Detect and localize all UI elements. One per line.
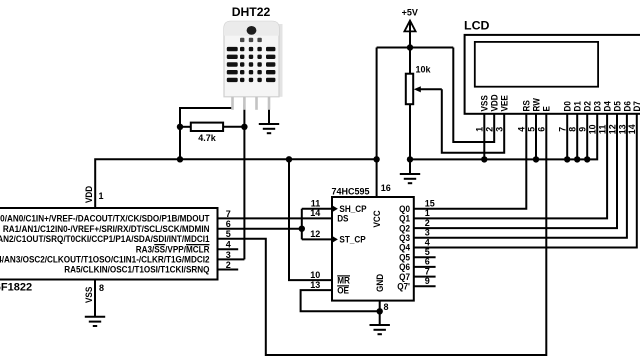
- svg-text:RW: RW: [531, 98, 541, 112]
- svg-text:15: 15: [425, 199, 435, 209]
- svg-text:8: 8: [99, 283, 104, 293]
- svg-text:MR: MR: [337, 275, 350, 285]
- svg-text:10: 10: [588, 124, 598, 134]
- wire PIC pin 4 stub: [218, 248, 239, 250]
- DHT22 eye circle: [247, 26, 257, 35]
- svg-text:VCC: VCC: [372, 210, 382, 228]
- svg-text:4: 4: [517, 127, 527, 132]
- wire pot ground stub: [409, 159, 411, 174]
- svg-text:16: 16: [381, 183, 391, 193]
- svg-text:6: 6: [537, 127, 547, 132]
- svg-text:13: 13: [310, 280, 320, 290]
- svg-text:4.7k: 4.7k: [198, 133, 217, 143]
- wire LCD D0 drop: [566, 114, 568, 160]
- svg-text:Q3: Q3: [399, 233, 410, 243]
- wire +5V symbol stem and pot top lead: [409, 22, 411, 74]
- ground PIC VSS: [85, 317, 105, 326]
- overbar OE: [337, 285, 349, 287]
- svg-text:RA1/AN1/C12IN0-/VREF+/SRI/RX/D: RA1/AN1/C12IN0-/VREF+/SRI/RX/DT/SCL/SCK/…: [3, 224, 210, 234]
- wire ST_CP pin 12 wire: [302, 238, 332, 240]
- svg-text:Q2: Q2: [399, 223, 410, 233]
- svg-text:6: 6: [226, 219, 231, 229]
- svg-text:1: 1: [475, 127, 485, 132]
- svg-text:VDD: VDD: [84, 185, 94, 203]
- wire resistor 4.7k right lead: [223, 126, 244, 128]
- wire Q7' stub: [414, 285, 436, 287]
- pot wiper arrowhead: [414, 86, 421, 92]
- svg-text:7: 7: [226, 209, 231, 219]
- junction data line / resistor right: [241, 124, 247, 130]
- svg-text:5: 5: [226, 229, 231, 239]
- junction ground rail / LCD VSS: [481, 156, 487, 162]
- svg-text:9: 9: [578, 127, 588, 132]
- svg-text:RS: RS: [522, 100, 532, 111]
- svg-text:PIC16F1822: PIC16F1822: [0, 281, 32, 293]
- svg-text:Q4: Q4: [399, 243, 410, 253]
- svg-text:9: 9: [425, 276, 430, 286]
- wire MR pull-up to VDD rail: [289, 159, 332, 280]
- wire Q5 stub: [414, 256, 436, 258]
- svg-text:GND: GND: [375, 273, 385, 292]
- wire Q3 to LCD D6: [414, 114, 627, 238]
- svg-text:D1: D1: [573, 101, 583, 111]
- svg-text:E: E: [542, 106, 552, 111]
- wire LCD D2 drop: [586, 114, 588, 160]
- junction clock bracket / PIC pin 6: [299, 226, 305, 232]
- svg-text:ST_CP: ST_CP: [339, 235, 365, 245]
- wire LCD D1 drop: [576, 114, 578, 160]
- svg-text:12: 12: [310, 229, 320, 239]
- junction VDD rail / VCC feed: [373, 156, 379, 162]
- svg-text:11: 11: [311, 199, 321, 209]
- ground DHT22 pin 4: [259, 124, 279, 133]
- svg-text:D7: D7: [632, 101, 640, 111]
- IC 74HC595 box: [332, 197, 414, 301]
- ground 74HC595 GND: [370, 325, 390, 334]
- svg-text:RA2/AN2/C1OUT/SRQ/T0CKI/CCP1/P: RA2/AN2/C1OUT/SRQ/T0CKI/CCP1/P1A/SDA/SDI…: [0, 234, 210, 244]
- svg-text:Q7': Q7': [397, 282, 410, 292]
- overbar MR: [337, 275, 350, 277]
- wire pot wiper to LCD VEE: [442, 89, 504, 153]
- junction ground rail / LCD RW: [533, 156, 539, 162]
- svg-text:11: 11: [598, 125, 608, 134]
- DHT22 pins: [231, 97, 270, 110]
- svg-text:14: 14: [310, 208, 320, 218]
- wire Q0 to LCD RS: [414, 114, 527, 209]
- svg-text:+5V: +5V: [402, 8, 418, 18]
- svg-text:10: 10: [310, 270, 320, 280]
- wire Q6 stub: [414, 266, 436, 268]
- wire Q1 to LCD D4: [414, 114, 607, 219]
- svg-text:Q0: Q0: [399, 204, 410, 214]
- wire PIC pin 6 wire: [218, 228, 302, 230]
- svg-text:2: 2: [425, 218, 430, 228]
- svg-text:D3: D3: [593, 101, 603, 111]
- junction VDD rail / MR pull-up: [286, 156, 292, 162]
- junction ground rail / LCD D2: [584, 156, 590, 162]
- svg-text:2: 2: [485, 127, 495, 132]
- svg-text:3: 3: [425, 228, 430, 238]
- svg-text:Q7: Q7: [399, 272, 410, 282]
- ground pot bottom: [400, 174, 420, 183]
- power +5V symbol: [404, 21, 415, 32]
- DHT22 vent slots: [227, 38, 276, 82]
- overbar SS: [154, 244, 165, 246]
- svg-text:8: 8: [568, 127, 578, 132]
- svg-text:Q6: Q6: [399, 262, 410, 272]
- svg-text:13: 13: [617, 124, 627, 134]
- svg-text:D4: D4: [603, 101, 613, 111]
- wire DHT22 VDD branch: [180, 105, 233, 160]
- svg-text:1: 1: [425, 208, 430, 218]
- junction +5V / pot top: [407, 44, 413, 50]
- IC PIC16F1822 box: [0, 208, 218, 280]
- wire +5V feed down to 74HC595 VCC pin 16: [376, 48, 378, 198]
- wire DHT22 data line down to PIC pin 3 row: [243, 105, 245, 260]
- svg-text:RA3/SS/VPP/MCLR: RA3/SS/VPP/MCLR: [136, 244, 210, 254]
- svg-text:VSS: VSS: [480, 95, 490, 111]
- wire DHT22 ground lead: [268, 105, 270, 125]
- wire 74HC595 GND pin 8 lead: [379, 301, 381, 325]
- potentiometer 10k body: [406, 74, 413, 105]
- svg-text:VEE: VEE: [500, 95, 510, 111]
- junction pot bottom / ground rail: [407, 156, 413, 162]
- wire LCD RW drop to ground rail: [535, 114, 537, 160]
- clock triangle ST_CP: [332, 236, 338, 243]
- wire Q2 to LCD D5: [414, 114, 617, 228]
- svg-text:10k: 10k: [416, 64, 432, 74]
- wire LCD ground rail to D3: [410, 114, 597, 160]
- LCD screen rectangle: [475, 42, 598, 87]
- wire PIC pin 5 to LCD E: [218, 114, 547, 355]
- svg-text:RA0/AN0/C1IN+/VREF-/DACOUT/TX/: RA0/AN0/C1IN+/VREF-/DACOUT/TX/CK/SDO/P1B…: [0, 214, 210, 224]
- svg-text:DHT22: DHT22: [232, 5, 271, 19]
- svg-text:VDD: VDD: [490, 94, 500, 112]
- wire PIC pin 2 stub: [218, 269, 239, 271]
- wire VDD rail from PIC pin 1 across top: [95, 159, 376, 208]
- svg-text:3: 3: [226, 250, 231, 260]
- svg-text:8: 8: [384, 302, 389, 312]
- svg-text:D0: D0: [563, 101, 573, 111]
- LCD module box: [465, 35, 640, 114]
- wire OE to GND junction: [301, 290, 380, 311]
- junction ground rail / LCD D1: [574, 156, 580, 162]
- svg-text:2: 2: [226, 260, 231, 270]
- clock triangle SH_CP: [332, 205, 338, 212]
- wire Q7 stub: [414, 276, 436, 278]
- wire PIC pin 3 wire: [218, 258, 245, 260]
- junction OE / 74HC595 GND: [377, 308, 383, 314]
- svg-text:RA5/CLKIN/OSC1/T1OSI/T1CKI/SRN: RA5/CLKIN/OSC1/T1OSI/T1CKI/SRNQ: [64, 265, 209, 275]
- wire PIC pin 7 to 74HC595 DS: [218, 217, 333, 219]
- svg-text:LCD: LCD: [464, 19, 490, 33]
- wire resistor 4.7k left lead: [180, 126, 191, 128]
- svg-text:D2: D2: [583, 101, 593, 111]
- svg-text:74HC595: 74HC595: [332, 187, 370, 197]
- svg-text:5: 5: [425, 247, 430, 257]
- svg-text:3: 3: [495, 127, 505, 132]
- svg-text:6: 6: [425, 257, 430, 267]
- svg-text:4: 4: [425, 237, 430, 247]
- svg-text:7: 7: [558, 127, 568, 132]
- wire LCD VDD path from +5V: [453, 48, 494, 143]
- svg-text:4: 4: [226, 240, 231, 250]
- wire LCD VSS drop to ground rail: [483, 114, 485, 160]
- junction ground rail / LCD D0: [564, 156, 570, 162]
- overbar MCLR: [186, 244, 210, 246]
- svg-text:7: 7: [425, 266, 430, 276]
- svg-text:Q1: Q1: [399, 214, 410, 224]
- svg-text:RA4/AN3/OSC2/CLKOUT/T1OSO/C1IN: RA4/AN3/OSC2/CLKOUT/T1OSO/C1IN1-/CLKR/T1…: [0, 255, 210, 265]
- svg-text:Q5: Q5: [399, 252, 410, 262]
- wire pot bottom lead to ground rail: [409, 104, 411, 159]
- svg-text:OE: OE: [337, 285, 349, 295]
- svg-text:DS: DS: [337, 214, 348, 224]
- junction supply / resistor left: [177, 124, 183, 130]
- wire +5V distribution horizontal: [377, 47, 454, 49]
- svg-text:12: 12: [607, 124, 617, 134]
- wire PIC pin 8 VSS to ground: [94, 280, 96, 317]
- wire wiper horizontal: [417, 88, 442, 90]
- wire Q4 to LCD D7: [414, 114, 637, 248]
- svg-text:14: 14: [627, 124, 637, 134]
- sensor DHT22 body: [224, 21, 283, 97]
- svg-text:D6: D6: [622, 101, 632, 111]
- wire clock bracket vertical SH_CP to ST_CP: [301, 209, 303, 240]
- svg-text:VSS: VSS: [84, 287, 94, 303]
- wire SH_CP pin 11 wire: [302, 208, 332, 210]
- junction VDD rail / DHT22 supply: [177, 156, 183, 162]
- svg-text:1: 1: [99, 191, 104, 201]
- svg-text:D5: D5: [612, 101, 622, 111]
- svg-text:5: 5: [526, 127, 536, 132]
- resistor 4.7k: [191, 123, 223, 131]
- svg-text:SH_CP: SH_CP: [339, 204, 366, 214]
